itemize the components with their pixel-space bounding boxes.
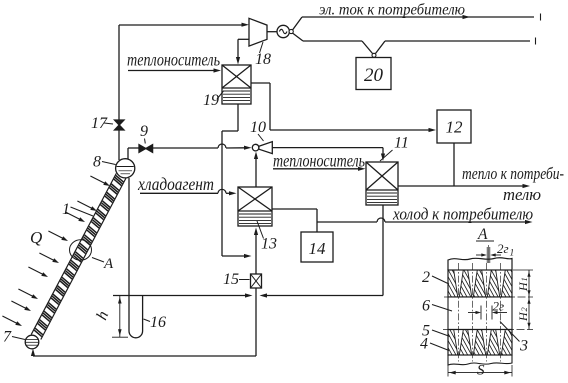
wire turbine exhaust to HX 19 (238, 38, 249, 40)
section mark ellipse on collector (70, 240, 92, 260)
svg-text:1: 1 (510, 249, 515, 259)
wire fork to lower power line (293, 33, 303, 41)
svg-text:теплоноситель: теплоноситель (127, 50, 220, 70)
wire теплоноситель feed to HX11 (273, 168, 360, 170)
wire turbine shaft (267, 31, 277, 33)
svg-text:19: 19 (203, 92, 219, 109)
dimension 2г1 (476, 254, 482, 256)
svg-text:1: 1 (62, 201, 70, 218)
wire drum 8 to valve 9 (127, 148, 129, 159)
box 12 heat accumulator (437, 110, 471, 143)
steam drum 8 (116, 159, 135, 178)
wire ejector outlet to HX11 (272, 147, 383, 149)
ejector 10 (252, 144, 259, 151)
node to accumulator 20 (372, 53, 376, 57)
svg-text:15: 15 (223, 271, 239, 288)
svg-text:8: 8 (93, 154, 101, 171)
wire HX19 to box 12 (251, 82, 270, 84)
wire riser to HX13 bottom (255, 233, 257, 256)
wire box 12 to heat line (453, 143, 455, 186)
wire riser segment (255, 256, 257, 274)
generator terminal node (289, 29, 293, 33)
dimension H1 (528, 270, 530, 297)
svg-text:1: 1 (519, 277, 529, 281)
heat exchanger 11 (366, 162, 398, 205)
svg-text:2г: 2г (493, 299, 505, 314)
wire HX13 to box 14 and cold branch (272, 208, 317, 210)
bottom plate with break line (448, 355, 512, 365)
wire U-tube line and return junction arrows (113, 295, 247, 297)
svg-text:14: 14 (309, 239, 327, 258)
heat exchanger 13 refrigerant generator (238, 187, 272, 226)
wire HX11 return down (382, 205, 384, 296)
dimension h arrow (119, 296, 121, 338)
valve 15 (251, 274, 262, 288)
svg-text:хладоагент: хладоагент (137, 174, 214, 194)
turbine 18 (249, 18, 267, 46)
svg-text:9: 9 (140, 123, 148, 140)
wire bottom return to pump 7 (33, 355, 256, 357)
svg-text:12: 12 (446, 118, 464, 137)
svg-text:тепло к потреби-: тепло к потреби- (462, 164, 564, 183)
pump 7 (25, 335, 39, 349)
svg-text:3: 3 (519, 338, 528, 355)
svg-text:6: 6 (422, 298, 430, 315)
valve 17 (115, 120, 125, 125)
svg-text:телю: телю (503, 185, 541, 204)
svg-text:Н: Н (516, 311, 530, 322)
solar flux arrows Q (90, 176, 104, 183)
svg-text:11: 11 (394, 135, 409, 152)
svg-text:2: 2 (422, 269, 430, 286)
wire valve 17 to drum 8 (118, 130, 120, 160)
wire heat to consumer line (398, 185, 525, 187)
U-tube 16 left pipe (128, 178, 130, 331)
wire lower power line (303, 40, 362, 42)
valve 9 (139, 145, 146, 153)
wire riser to valve 17 (118, 25, 120, 120)
wire cold to consumer line with hop (317, 221, 377, 223)
svg-text:холод к потребителю: холод к потребителю (392, 205, 533, 224)
svg-text:16: 16 (150, 314, 166, 331)
wire HX13 vapor to ejector (255, 157, 257, 187)
glass plate with break line (448, 258, 512, 270)
wire HX19 condensate down (237, 104, 239, 131)
svg-text:Q: Q (30, 228, 42, 247)
svg-text:20: 20 (364, 65, 384, 86)
heat exchanger 19 steam generator (222, 65, 251, 104)
svg-text:7: 7 (3, 329, 12, 346)
wire хладоагент feed to HX13 with hop (140, 192, 218, 194)
wire valve 9 to ejector 10 with hop (153, 147, 218, 149)
dimension S (447, 365, 449, 377)
wire elbow into riser with arrow (222, 255, 246, 257)
wire top power line (302, 16, 534, 18)
box 14 cold accumulator (301, 232, 333, 262)
channel band 6 (448, 297, 512, 330)
dimension extension lines (513, 269, 533, 271)
wire riser below valve 15 (255, 288, 257, 356)
box 20 electric accumulator (356, 58, 391, 90)
U-tube 16 bend and right pipe (129, 331, 143, 338)
wire теплоноситель feed to HX19 (128, 70, 215, 72)
svg-text:теплоноситель: теплоноситель (273, 151, 365, 171)
svg-text:эл. ток к потребителю: эл. ток к потребителю (319, 2, 465, 19)
svg-text:18: 18 (255, 51, 271, 68)
wire fork to top power line (293, 17, 302, 30)
dimension h lower extension (112, 336, 128, 338)
dimension 2г (468, 312, 477, 314)
wire steam line to turbine (119, 24, 244, 26)
wire vertical return line x222 (221, 131, 223, 256)
svg-text:2г: 2г (497, 241, 509, 256)
svg-text:4: 4 (420, 336, 428, 353)
dimension H2 (528, 297, 530, 330)
svg-text:Н: Н (516, 281, 530, 292)
svg-text:А: А (103, 256, 114, 272)
svg-text:S: S (477, 363, 485, 379)
groove centerlines (458, 263, 460, 362)
generator (277, 25, 289, 37)
solar collector tube 1 (31, 173, 126, 339)
svg-text:10: 10 (250, 119, 266, 136)
